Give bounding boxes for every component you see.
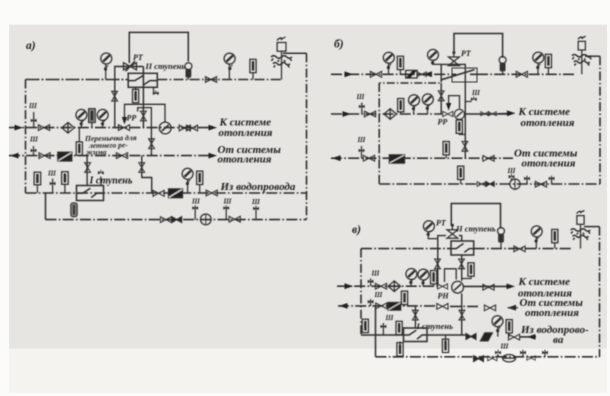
wire: drop left with valve X — [437, 249, 439, 287]
wire: return row — [338, 305, 436, 307]
svg-text:К системе: К системе — [518, 276, 571, 288]
svg-text:Ш: Ш — [29, 136, 39, 144]
arrow top entry — [345, 71, 354, 77]
arrow return exit — [339, 303, 348, 309]
thermometer right — [545, 54, 551, 67]
svg-text:Ш: Ш — [500, 343, 510, 351]
thermometer off right drop — [462, 276, 471, 279]
gauge supply 2 — [418, 269, 429, 280]
wire into water arrow — [520, 336, 536, 338]
pump RR — [454, 109, 464, 119]
wire: top right link — [283, 52, 307, 54]
valve bottom right — [229, 216, 240, 222]
wire: RR valve bypass frame — [138, 108, 152, 128]
wire: supply row — [9, 127, 212, 129]
mud box black — [389, 155, 404, 163]
svg-text:II ступень: II ступень — [145, 61, 186, 71]
svg-text:отопления: отопления — [521, 117, 575, 129]
svg-text:отопления: отопления — [525, 307, 579, 319]
svg-text:Ш: Ш — [191, 198, 201, 206]
wire: drop to exchanger I — [414, 306, 416, 328]
filter diamond — [384, 109, 396, 120]
svg-text:РР: РР — [438, 118, 448, 127]
thermometer water 2 — [62, 172, 69, 185]
mud box hatched — [406, 70, 417, 78]
thermometer top row — [397, 56, 403, 69]
arrow middle entry — [343, 111, 352, 117]
valve before pump — [437, 284, 447, 289]
svg-text:жима: жима — [86, 148, 107, 157]
wire: main row — [361, 248, 451, 250]
thermometer right of exchanger — [445, 335, 447, 341]
wire: bridge over exchanger — [441, 64, 465, 74]
mud box black — [388, 302, 401, 310]
svg-text:в): в) — [352, 224, 361, 236]
valve return right — [484, 305, 495, 311]
valves after elevator — [179, 125, 190, 131]
pump RN — [452, 281, 464, 293]
arrow from heating system — [209, 153, 218, 159]
wire: top main line left segment — [26, 79, 129, 81]
wire: RT impulse loop — [129, 32, 188, 63]
valve return mid — [437, 304, 448, 310]
wire: top main line right segment — [157, 79, 281, 81]
valve black on water — [466, 334, 476, 340]
valve water right — [508, 334, 519, 340]
gauge supply 1 — [76, 109, 87, 120]
drain above exchanger I — [100, 177, 102, 186]
fitting stub 2 — [522, 351, 524, 357]
svg-text:I ступень: I ступень — [416, 321, 454, 331]
valve on main line — [205, 77, 216, 83]
gauge middle 2 — [422, 94, 433, 105]
valve top row — [370, 71, 381, 77]
gauge supply 2 — [97, 109, 108, 120]
mud box (black) — [58, 152, 72, 161]
wire: middle row — [331, 113, 442, 115]
sensor bulb — [185, 63, 192, 78]
wire: drop right with valve X — [461, 255, 463, 281]
valve water 2 — [206, 190, 217, 196]
arrow supply entry — [345, 283, 354, 289]
heat exchanger stage II — [128, 73, 157, 87]
thermometer under exchanger — [135, 87, 137, 90]
wire: left boundary — [360, 249, 362, 335]
valves to system — [481, 112, 489, 116]
valve bottom mid — [527, 356, 535, 360]
wire: drop right lower — [461, 294, 463, 336]
fitting Sh on drop — [465, 101, 471, 103]
gauge near RT — [428, 49, 439, 60]
gauge water — [182, 168, 193, 179]
water meter — [200, 214, 211, 225]
thermometer on bottom line — [458, 166, 464, 179]
wire: RR impulse loop — [125, 104, 166, 122]
wire: RT valve feed — [115, 67, 144, 128]
heat exchanger stage II (built-in) — [441, 68, 477, 82]
wire: regulator drop — [440, 83, 442, 114]
filter diamond — [388, 281, 400, 292]
svg-text:Ш: Ш — [251, 198, 261, 206]
thermometer water 3 — [197, 171, 203, 184]
thermometer supply — [431, 271, 437, 284]
svg-text:II ступень: II ступень — [455, 224, 496, 234]
air tank / fountain — [271, 37, 292, 80]
heat exchanger stage I — [77, 186, 104, 201]
valve after pump — [483, 284, 494, 290]
wire: RT impulse loop — [451, 204, 500, 229]
valve RT with actuator — [447, 224, 458, 239]
arrow from system — [508, 305, 517, 311]
svg-text:Ш: Ш — [356, 93, 366, 101]
gauge supply 1 — [406, 269, 417, 280]
svg-text:а): а) — [26, 40, 36, 52]
arrow to heating system — [209, 125, 218, 131]
wire: right boundary — [599, 227, 601, 357]
svg-text:отопления: отопления — [522, 157, 576, 169]
valve bottom open — [477, 182, 486, 187]
arrow to heating system — [507, 110, 516, 116]
gauge right — [531, 226, 542, 237]
thermometer below pump — [456, 120, 462, 133]
svg-text:Ш: Ш — [507, 167, 517, 175]
wire: right drop to pump and return — [464, 74, 466, 158]
svg-text:отопления: отопления — [218, 153, 272, 165]
thermometer on left boundary — [362, 319, 368, 332]
valve return right — [483, 156, 494, 162]
svg-text:Ш: Ш — [47, 170, 57, 178]
valve after exchanger — [516, 71, 527, 77]
valve bottom right — [535, 181, 546, 187]
wire: bottom line — [379, 183, 600, 185]
gauge with cock (top mid) — [224, 53, 235, 64]
water meter — [510, 179, 520, 189]
valve X to return — [462, 141, 468, 151]
air tank / fountain — [572, 36, 592, 74]
sensor bulb — [499, 57, 506, 72]
arrow supply entry — [15, 125, 24, 131]
svg-text:Ш: Ш — [357, 136, 367, 144]
wire: right boundary — [306, 53, 308, 219]
wire: RN impulse loop — [445, 269, 457, 282]
thermometer right — [552, 229, 558, 242]
check device (black) on water line — [169, 189, 183, 198]
valve return 2 — [116, 153, 127, 159]
valve supply — [375, 283, 386, 289]
svg-text:Ш: Ш — [385, 314, 395, 322]
thermometer above water — [396, 321, 402, 334]
valve before pump — [443, 111, 453, 116]
wire: water line — [361, 334, 404, 336]
thermometer on main line — [250, 59, 256, 72]
svg-text:РР: РР — [127, 114, 137, 123]
heat exchanger stage I — [404, 328, 428, 342]
valve return — [363, 155, 374, 161]
thermometer water — [506, 320, 512, 333]
gauge middle 1 — [409, 95, 420, 106]
gauge with cock (top left) — [101, 53, 112, 64]
jumper drop with valve — [150, 128, 152, 156]
valve before elevator — [118, 125, 129, 131]
valve RR — [141, 111, 147, 121]
wire: return row — [9, 155, 212, 157]
thermometer below supply — [78, 128, 80, 143]
wire: supply row — [337, 285, 440, 287]
arrow return exit — [332, 155, 341, 161]
wire: right boundary — [599, 56, 601, 184]
valve bottom open — [160, 217, 171, 223]
valve on water line — [153, 190, 164, 196]
sensor bulb — [498, 228, 505, 243]
wire: RT impulse loop — [454, 34, 503, 58]
svg-text:Ш: Ш — [223, 198, 233, 206]
svg-text:отопления: отопления — [219, 127, 273, 139]
check arrow black — [424, 71, 433, 77]
valve bottom black — [172, 217, 182, 223]
svg-text:Ш: Ш — [471, 89, 481, 97]
drop return bypass with elbow — [142, 156, 152, 193]
wire: center drop through exchanger — [142, 67, 144, 128]
fitting stub 3 — [551, 177, 553, 184]
gray pill below water line — [71, 203, 77, 217]
wire: left drop to bottom — [45, 193, 47, 220]
wire: bottom line — [376, 356, 600, 358]
wire: return row — [331, 157, 513, 159]
air tank / fountain — [571, 211, 591, 249]
svg-text:РТ: РТ — [436, 219, 447, 228]
wire: bottom line — [46, 219, 307, 221]
svg-text:Ш: Ш — [28, 102, 38, 110]
valve return — [39, 153, 50, 159]
svg-text:РТ: РТ — [133, 53, 144, 62]
wire: RR impulse loop — [449, 96, 460, 109]
valve bottom open — [488, 356, 497, 361]
svg-text:РН: РН — [438, 292, 450, 301]
wire: left boundary — [25, 80, 27, 194]
arrow to heating system — [507, 284, 516, 290]
wire: left vertical lower — [375, 306, 377, 357]
svg-text:Ш: Ш — [371, 269, 381, 277]
svg-text:РТ: РТ — [461, 49, 472, 58]
gauge right — [533, 52, 544, 63]
svg-text:ва: ва — [553, 334, 564, 346]
gauge top row — [383, 52, 394, 63]
valve RT (bowtie with slash) — [124, 61, 137, 71]
wire: top right link — [585, 55, 600, 57]
heat exchanger stage II — [451, 241, 474, 255]
thermometer above return — [443, 142, 449, 155]
drop return to exchanger I — [86, 156, 88, 186]
check device black — [481, 333, 493, 341]
wire: bridge — [438, 236, 462, 241]
device pill between gauges — [89, 109, 96, 123]
valve middle — [364, 111, 375, 117]
valve supply — [38, 125, 49, 131]
gauge near RT — [423, 221, 434, 232]
valve bottom black — [486, 182, 494, 187]
water meter ellipse — [503, 355, 516, 362]
filter diamond — [62, 123, 74, 134]
drain cock at exchanger — [154, 87, 159, 93]
valve small — [417, 72, 426, 77]
valve X on drop — [438, 91, 444, 101]
wire: bypass drop — [379, 74, 441, 83]
valve return — [376, 303, 387, 309]
wire: inner left boundary — [378, 83, 380, 184]
thermometer middle — [398, 99, 404, 112]
arrow return exit — [10, 153, 19, 159]
valve X on hot drop — [112, 91, 118, 101]
thermometer below exchanger — [399, 342, 401, 346]
svg-text:б): б) — [334, 39, 344, 51]
fitting stub 2 — [526, 177, 528, 184]
valve RT with actuator — [449, 51, 460, 66]
wire: top right link — [584, 226, 600, 228]
fitting stub 3 — [544, 351, 546, 357]
valve after exchanger — [514, 246, 525, 252]
valve bottom black — [474, 356, 484, 362]
elevator — [159, 122, 171, 134]
thermometer above return — [401, 291, 407, 304]
wire: top row — [331, 73, 452, 75]
gauge water — [492, 316, 503, 327]
thermometer water 1 — [34, 172, 41, 185]
wire: water line — [26, 192, 307, 194]
svg-text:Ш: Ш — [374, 291, 384, 299]
svg-text:Из водопровода: Из водопровода — [220, 181, 296, 193]
